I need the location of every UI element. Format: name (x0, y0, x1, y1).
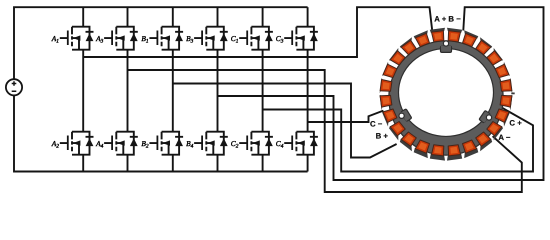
wire phase lead C- (C3/C4 junction to stator left) (308, 111, 384, 122)
wire drain stub C1 (262, 7, 264, 27)
transistor C4 with antiparallel diode (284, 132, 318, 155)
svg-text:A + B −: A + B − (434, 15, 461, 24)
svg-text:A2: A2 (51, 139, 60, 150)
svg-text:C −: C − (370, 119, 383, 128)
svg-text:B2: B2 (141, 139, 149, 150)
svg-text:A −: A − (498, 133, 511, 142)
transistor A3 with antiparallel diode (104, 27, 138, 50)
wire phase lead A- (A3/A4 junction to stator right) (128, 70, 522, 192)
transistor A1 with antiparallel diode (60, 27, 94, 50)
svg-text:C3: C3 (276, 34, 284, 45)
wire drain stub B1 (172, 7, 174, 27)
transistor B1 with antiparallel diode (149, 27, 183, 50)
motor stator coil windings (24 red blocks) (380, 31, 512, 156)
transistor C3 with antiparallel diode (284, 27, 318, 50)
svg-text:C1: C1 (231, 34, 239, 45)
svg-text:A3: A3 (95, 34, 104, 45)
motor mounting bosses (401, 46, 491, 123)
wire drain stub C3 (307, 7, 309, 27)
transistor A4 with antiparallel diode (104, 132, 138, 155)
wire phase lead C+ (C1/C2 junction to stator right) (263, 108, 533, 172)
wire phase-leg stub C1/C2 (262, 50, 264, 132)
transistor B4 with antiparallel diode (194, 132, 228, 155)
svg-text:C +: C + (509, 119, 522, 128)
wire phase lead A+ (A1/A2 junction to stator top-left) (83, 7, 432, 57)
wire phase-leg stub B1/B2 (172, 50, 174, 132)
wire phase-leg stub A1/A2 (82, 50, 84, 132)
svg-text:C2: C2 (231, 139, 239, 150)
svg-text:B4: B4 (186, 139, 194, 150)
wire phase lead B+ (B1/B2 junction to stator lower-left) (173, 84, 397, 158)
motor mounting holes (399, 41, 492, 120)
svg-text:B3: B3 (186, 34, 194, 45)
transistor A2 with antiparallel diode (60, 132, 94, 155)
wire source stub A2 (82, 155, 84, 172)
wire source stub C2 (262, 155, 264, 172)
wire bottom DC bus rail (14, 95, 308, 171)
wire phase-leg stub B3/B4 (217, 50, 219, 132)
stator index tab at 3 o'clock (511, 93, 514, 95)
wire phase-leg stub C3/C4 (307, 50, 309, 132)
motor stator bore band (389, 41, 503, 155)
transistor C1 with antiparallel diode (239, 27, 273, 50)
wire drain stub A1 (82, 7, 84, 27)
svg-text:A4: A4 (95, 139, 104, 150)
wire source stub B4 (217, 155, 219, 172)
wire source stub B2 (172, 155, 174, 172)
wire drain stub B3 (217, 7, 219, 27)
svg-text:A1: A1 (51, 34, 60, 45)
wire top DC bus rail (14, 7, 308, 79)
svg-text:B1: B1 (141, 34, 149, 45)
svg-text:C4: C4 (276, 139, 284, 150)
wire phase-leg stub A3/A4 (127, 50, 129, 132)
svg-text:B +: B + (376, 131, 389, 140)
wire drain stub A3 (127, 7, 129, 27)
motor pole shoe caps (380, 28, 513, 161)
wire phase lead B- (B3/B4 junction to stator top-right) (218, 7, 544, 180)
DC source V1 (6, 79, 22, 95)
wire source stub C4 (307, 155, 309, 172)
transistor C2 with antiparallel diode (239, 132, 273, 155)
wire source stub A4 (127, 155, 129, 172)
transistor B3 with antiparallel diode (194, 27, 228, 50)
transistor B2 with antiparallel diode (149, 132, 183, 155)
